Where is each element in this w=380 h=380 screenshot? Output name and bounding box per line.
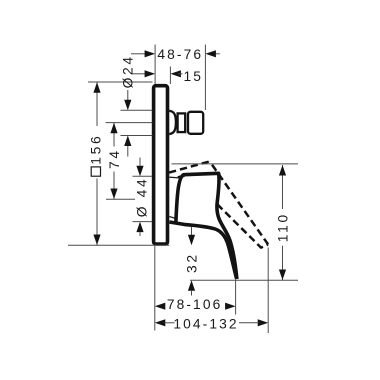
label 110	[275, 212, 290, 242]
ext line knob bottom y135.5	[121, 135, 153, 137]
dim 48-76 right arrow	[205, 50, 216, 57]
handle collar top thin line	[169, 176, 179, 179]
dim 15 tail to text	[178, 73, 183, 75]
dim 104-132 left arrow	[155, 319, 166, 326]
knob head Ø24	[188, 112, 203, 134]
dim 32 top tail	[191, 227, 193, 235]
handle grip outline	[176, 173, 237, 279]
svg-text:74: 74	[107, 148, 122, 169]
dim 156 top arrow	[93, 82, 100, 93]
ext line knob centre y122.6	[106, 122, 153, 124]
ext line vertical x235.6 (lever tip)	[235, 280, 237, 314]
dim 15 left arrow	[145, 70, 156, 77]
ext line lever bottom y280.3	[190, 279, 298, 281]
label Ø24	[121, 54, 136, 88]
dim Ø24 leader line from text	[127, 90, 129, 100]
dim 74 line lower	[113, 172, 115, 200]
dim 156 line upper	[96, 82, 98, 126]
svg-text:78-106: 78-106	[167, 297, 223, 312]
dim 78-106 left arrow	[155, 303, 166, 310]
dim 110 line lower	[282, 246, 284, 280]
label Ø44	[134, 177, 149, 218]
ext line vertical x268.2 (dashed lever tip)	[267, 248, 269, 334]
dim 104-132 right arrow	[258, 319, 269, 326]
knob dome transition	[169, 111, 176, 134]
dim 15 right arrow	[170, 70, 181, 77]
dim 110 top arrow	[279, 165, 286, 176]
dim 78-106 right arrow	[225, 303, 236, 310]
ext line vertical left x155 (top dims)	[154, 45, 156, 85]
lever raised position (dashed) lower edge of tail	[217, 204, 268, 247]
svg-text:110: 110	[275, 212, 290, 242]
label square symbol	[91, 167, 100, 176]
dim 32 top arrow	[188, 235, 195, 246]
ext line vertical x170 (15 right)	[169, 67, 171, 85]
svg-text:48-76: 48-76	[157, 47, 203, 62]
dim 48-76 left tail	[131, 53, 146, 55]
dim Ø24 bottom arrow	[124, 136, 131, 147]
dim Ø44 bottom tail	[139, 232, 141, 236]
dim 156 bottom arrow	[93, 235, 100, 246]
dim Ø44 top arrow	[136, 166, 143, 177]
dim 104-132 right tail	[239, 322, 259, 324]
lever raised position (dashed) upper edge	[169, 161, 210, 172]
svg-text:156: 156	[89, 134, 104, 165]
label 32	[184, 252, 199, 273]
ext line hub centre y199.2	[106, 198, 135, 200]
label 74	[107, 148, 122, 169]
dim 156 line lower	[96, 179, 98, 246]
dim 74 line upper	[113, 123, 115, 147]
dim Ø24 top arrow	[124, 100, 131, 111]
ext line hub bottom y221.6	[133, 221, 153, 223]
svg-text:15: 15	[184, 69, 204, 84]
svg-text:32: 32	[184, 252, 199, 273]
svg-text:104-132: 104-132	[173, 316, 238, 331]
dim 48-76 right tail	[215, 53, 220, 55]
dim 32 bottom arrow	[188, 280, 195, 291]
handle collar bottom thin line	[169, 217, 176, 219]
ext line vertical x154.8 (bottom dims left)	[154, 246, 156, 331]
ext line plate top y82	[88, 81, 152, 83]
lever raised position (dashed) lower edge near hub	[178, 176, 185, 178]
label 156	[89, 134, 104, 165]
dim 104-132 left tail	[165, 322, 175, 324]
ext line plate bottom y245.2	[68, 244, 169, 246]
dim 48-76 left arrow	[145, 50, 156, 57]
dim 74 bottom arrow	[110, 189, 117, 200]
knob neck ring	[178, 113, 186, 132]
svg-text:Ø24: Ø24	[121, 54, 136, 88]
dim 110 line upper	[282, 165, 284, 209]
dim Ø44 bottom arrow	[136, 222, 143, 233]
escutcheon plate (side view)	[154, 86, 168, 244]
dim Ø44 top tail	[139, 158, 141, 166]
dim Ø24 bottom tail	[127, 146, 129, 157]
ext line lever top y163.9	[172, 163, 299, 165]
dim 32 bottom tail	[191, 291, 193, 296]
dim 74 top arrow	[110, 123, 117, 134]
ext line vertical x205 (48-76 right)	[204, 45, 206, 111]
ext line knob top y110	[121, 109, 153, 111]
handle underside / hub bottom	[169, 222, 236, 279]
dim 110 bottom arrow	[279, 270, 286, 281]
svg-text:Ø 44: Ø 44	[134, 177, 149, 218]
dim 15 left tail	[131, 73, 146, 75]
ext line hub top y176.2	[133, 175, 153, 177]
